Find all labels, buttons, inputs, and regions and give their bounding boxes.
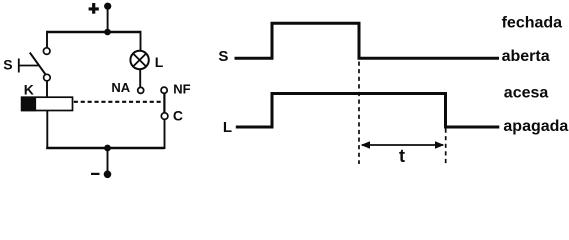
relay coil K — [21, 97, 73, 112]
switch S fixed contact — [43, 48, 50, 55]
svg-text:S: S — [3, 56, 12, 72]
time interval arrow t — [361, 141, 445, 149]
negative supply terminal node — [104, 171, 112, 179]
wire switch S terminal lead — [19, 65, 40, 67]
junction top rail — [104, 29, 111, 36]
svg-text:L: L — [223, 119, 232, 136]
svg-text:apagada: apagada — [503, 118, 568, 135]
positive supply terminal node — [104, 3, 111, 10]
waveform L — [236, 94, 500, 128]
waveform S — [235, 23, 500, 58]
contact NF — [161, 87, 167, 93]
mechanical link dashed K to contacts — [74, 101, 163, 103]
svg-text:NF: NF — [173, 81, 190, 96]
svg-text:NA: NA — [111, 80, 130, 95]
wire top rail to lamp — [140, 31, 142, 51]
lamp L — [130, 51, 148, 69]
switch S terminal tick — [18, 59, 20, 73]
relay contact blade NF-C — [163, 93, 165, 113]
wire bottom rail to contact C — [164, 119, 166, 149]
dashed marker at lamp off — [445, 129, 447, 165]
wire bottom rail — [46, 147, 164, 149]
junction bottom rail — [104, 145, 111, 152]
svg-text:aberta: aberta — [502, 48, 550, 65]
contact C — [161, 113, 168, 120]
positive supply label + — [89, 3, 99, 14]
contact NA — [138, 87, 144, 93]
svg-text:fechada: fechada — [502, 14, 563, 31]
svg-text:C: C — [173, 107, 183, 123]
negative supply label - — [91, 173, 100, 175]
svg-text:K: K — [24, 81, 34, 97]
wire top rail — [47, 31, 141, 33]
dashed marker at switch opening — [358, 62, 360, 165]
switch S pivot contact — [44, 74, 51, 81]
svg-text:S: S — [218, 48, 228, 65]
switch S blade — [30, 53, 46, 75]
wire positive terminal to top rail — [107, 6, 109, 32]
wire junction to negative terminal — [107, 148, 109, 174]
wire top rail to switch fixed contact — [46, 31, 48, 48]
svg-text:L: L — [155, 54, 164, 70]
svg-text:acesa: acesa — [504, 85, 549, 102]
wire relay coil to bottom rail — [46, 111, 48, 150]
wire switch pivot to relay coil — [46, 81, 48, 98]
svg-text:t: t — [399, 146, 405, 166]
wire lamp to contact NA — [139, 69, 141, 87]
